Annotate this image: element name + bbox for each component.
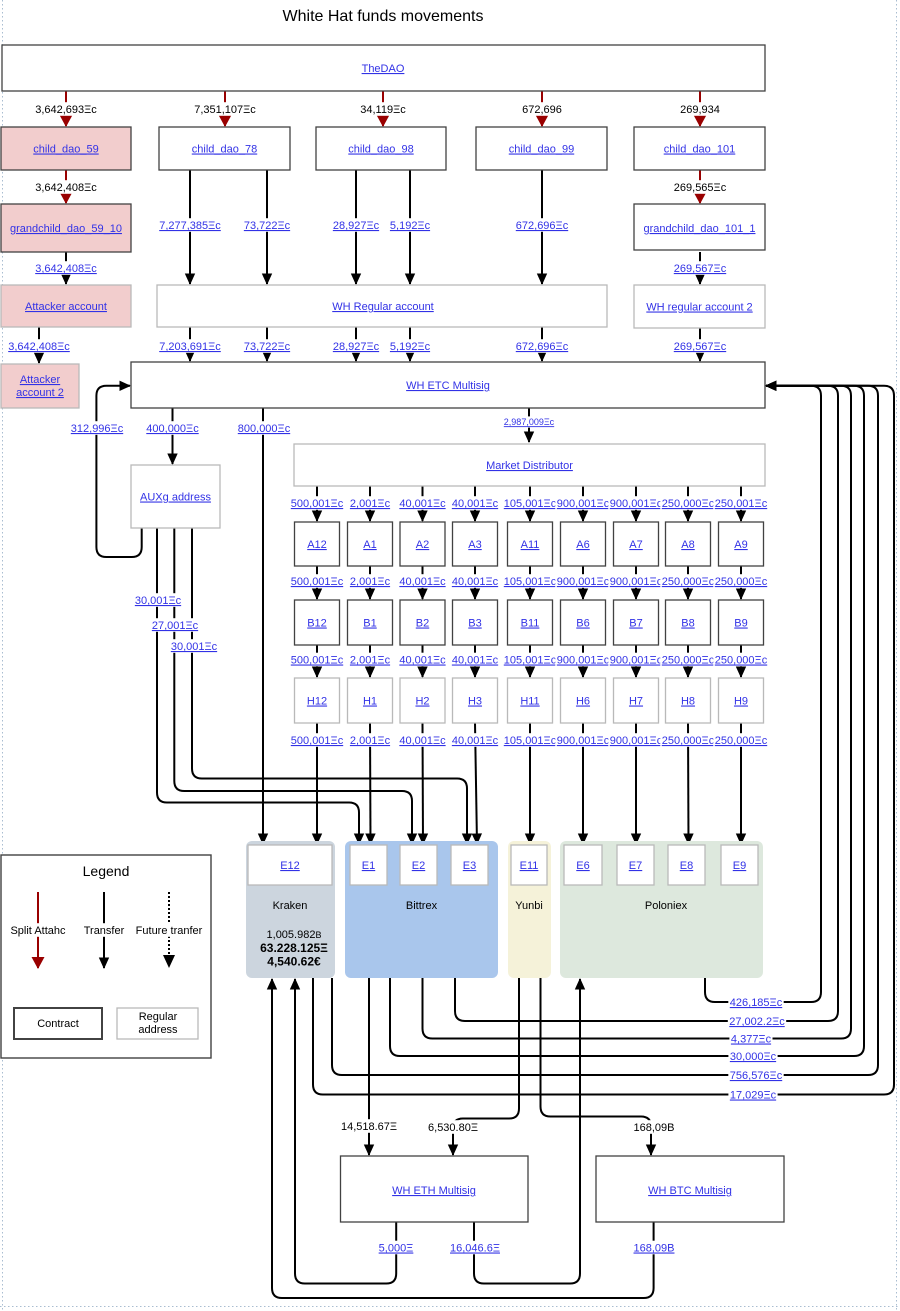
svg-text:B1: B1 bbox=[363, 618, 376, 630]
svg-text:AUXg address: AUXg address bbox=[140, 492, 211, 504]
svg-text:Market Distributor: Market Distributor bbox=[486, 460, 573, 472]
svg-text:17,029Ξc: 17,029Ξc bbox=[730, 1090, 777, 1102]
svg-text:B6: B6 bbox=[576, 618, 589, 630]
svg-text:Future tranfer: Future tranfer bbox=[136, 925, 203, 937]
svg-text:105,001Ξc: 105,001Ξc bbox=[504, 498, 557, 510]
svg-text:3,642,408Ξc: 3,642,408Ξc bbox=[8, 341, 70, 353]
svg-text:63.228.125Ξ: 63.228.125Ξ bbox=[260, 941, 328, 955]
svg-text:4,540.62€: 4,540.62€ bbox=[267, 955, 321, 969]
svg-text:40,001Ξc: 40,001Ξc bbox=[399, 576, 446, 588]
svg-text:28,927Ξc: 28,927Ξc bbox=[333, 220, 380, 232]
svg-text:900,001Ξc: 900,001Ξc bbox=[610, 498, 663, 510]
svg-text:500,001Ξc: 500,001Ξc bbox=[291, 576, 344, 588]
svg-text:H2: H2 bbox=[415, 696, 429, 708]
svg-text:E7: E7 bbox=[629, 860, 642, 872]
svg-text:269,934: 269,934 bbox=[680, 104, 720, 116]
svg-text:3,642,693Ξc: 3,642,693Ξc bbox=[35, 104, 97, 116]
svg-text:2,001Ξc: 2,001Ξc bbox=[350, 735, 391, 747]
svg-text:250,000Ξc: 250,000Ξc bbox=[715, 655, 768, 667]
svg-text:Regular: Regular bbox=[139, 1011, 178, 1023]
svg-text:B7: B7 bbox=[629, 618, 642, 630]
svg-text:168,09B: 168,09B bbox=[634, 1122, 675, 1134]
svg-text:105,001Ξc: 105,001Ξc bbox=[504, 655, 557, 667]
svg-text:5,192Ξc: 5,192Ξc bbox=[390, 341, 431, 353]
svg-text:H12: H12 bbox=[307, 696, 327, 708]
svg-text:105,001Ξc: 105,001Ξc bbox=[504, 735, 557, 747]
svg-text:5,000Ξ: 5,000Ξ bbox=[379, 1243, 414, 1255]
svg-text:800,000Ξc: 800,000Ξc bbox=[238, 423, 291, 435]
svg-text:2,001Ξc: 2,001Ξc bbox=[350, 655, 391, 667]
svg-text:WH regular account 2: WH regular account 2 bbox=[646, 302, 752, 314]
svg-text:H3: H3 bbox=[468, 696, 482, 708]
svg-text:40,001Ξc: 40,001Ξc bbox=[399, 735, 446, 747]
svg-text:E12: E12 bbox=[280, 860, 300, 872]
svg-text:E11: E11 bbox=[520, 860, 539, 872]
svg-text:900,001Ξc: 900,001Ξc bbox=[557, 655, 610, 667]
svg-text:WH BTC Multisig: WH BTC Multisig bbox=[648, 1185, 732, 1197]
svg-text:400,000Ξc: 400,000Ξc bbox=[146, 423, 199, 435]
svg-text:E1: E1 bbox=[362, 860, 375, 872]
svg-text:White Hat funds movements: White Hat funds movements bbox=[283, 8, 484, 25]
svg-text:168,09B: 168,09B bbox=[634, 1243, 675, 1255]
svg-text:A11: A11 bbox=[521, 539, 540, 551]
svg-text:250,000Ξc: 250,000Ξc bbox=[715, 576, 768, 588]
svg-text:1,005.982B: 1,005.982B bbox=[267, 929, 322, 941]
svg-text:312,996Ξc: 312,996Ξc bbox=[71, 423, 124, 435]
svg-text:2,001Ξc: 2,001Ξc bbox=[350, 576, 391, 588]
svg-text:H7: H7 bbox=[629, 696, 643, 708]
svg-text:672,696: 672,696 bbox=[522, 104, 562, 116]
svg-text:E9: E9 bbox=[733, 860, 746, 872]
svg-text:900,001Ξc: 900,001Ξc bbox=[557, 735, 610, 747]
svg-text:A6: A6 bbox=[576, 539, 589, 551]
svg-text:Yunbi: Yunbi bbox=[515, 900, 543, 912]
svg-text:TheDAO: TheDAO bbox=[362, 63, 405, 75]
svg-text:40,001Ξc: 40,001Ξc bbox=[399, 498, 446, 510]
svg-text:250,000Ξc: 250,000Ξc bbox=[662, 576, 715, 588]
svg-text:250,000Ξc: 250,000Ξc bbox=[662, 498, 715, 510]
svg-text:2,987,009Ξc: 2,987,009Ξc bbox=[504, 417, 555, 427]
svg-text:grandchild_dao_101_1: grandchild_dao_101_1 bbox=[644, 223, 756, 235]
svg-text:500,001Ξc: 500,001Ξc bbox=[291, 655, 344, 667]
svg-text:address: address bbox=[138, 1024, 178, 1036]
svg-text:40,001Ξc: 40,001Ξc bbox=[452, 735, 499, 747]
svg-text:E3: E3 bbox=[463, 860, 476, 872]
svg-text:child_dao_101: child_dao_101 bbox=[664, 144, 736, 156]
svg-text:Contract: Contract bbox=[37, 1018, 79, 1030]
svg-text:2,001Ξc: 2,001Ξc bbox=[350, 498, 391, 510]
svg-text:7,203,691Ξc: 7,203,691Ξc bbox=[159, 341, 221, 353]
svg-text:672,696Ξc: 672,696Ξc bbox=[516, 341, 569, 353]
svg-text:H8: H8 bbox=[681, 696, 695, 708]
svg-text:3,642,408Ξc: 3,642,408Ξc bbox=[35, 182, 97, 194]
svg-text:269,565Ξc: 269,565Ξc bbox=[674, 182, 727, 194]
svg-text:269,567Ξc: 269,567Ξc bbox=[674, 263, 727, 275]
svg-text:A2: A2 bbox=[416, 539, 429, 551]
svg-text:B2: B2 bbox=[416, 618, 429, 630]
svg-text:28,927Ξc: 28,927Ξc bbox=[333, 341, 380, 353]
svg-text:40,001Ξc: 40,001Ξc bbox=[399, 655, 446, 667]
svg-text:grandchild_dao_59_10: grandchild_dao_59_10 bbox=[10, 223, 122, 235]
svg-text:672,696Ξc: 672,696Ξc bbox=[516, 220, 569, 232]
svg-text:900,001Ξc: 900,001Ξc bbox=[610, 655, 663, 667]
svg-text:Attacker account: Attacker account bbox=[25, 301, 107, 313]
svg-text:5,192Ξc: 5,192Ξc bbox=[390, 220, 431, 232]
svg-text:40,001Ξc: 40,001Ξc bbox=[452, 576, 499, 588]
svg-text:child_dao_98: child_dao_98 bbox=[348, 144, 413, 156]
svg-text:B8: B8 bbox=[681, 618, 694, 630]
svg-text:WH ETH Multisig: WH ETH Multisig bbox=[392, 1185, 476, 1197]
svg-text:500,001Ξc: 500,001Ξc bbox=[291, 498, 344, 510]
svg-text:A12: A12 bbox=[307, 539, 327, 551]
svg-text:30,001Ξc: 30,001Ξc bbox=[135, 595, 182, 607]
svg-text:7,351,107Ξc: 7,351,107Ξc bbox=[194, 104, 256, 116]
svg-text:500,001Ξc: 500,001Ξc bbox=[291, 735, 344, 747]
svg-text:30,000Ξc: 30,000Ξc bbox=[730, 1051, 777, 1063]
svg-text:Bittrex: Bittrex bbox=[406, 900, 438, 912]
svg-text:H6: H6 bbox=[576, 696, 590, 708]
svg-text:900,001Ξc: 900,001Ξc bbox=[557, 498, 610, 510]
svg-text:E8: E8 bbox=[680, 860, 693, 872]
svg-text:426,185Ξc: 426,185Ξc bbox=[730, 997, 783, 1009]
svg-text:900,001Ξc: 900,001Ξc bbox=[610, 576, 663, 588]
svg-text:H1: H1 bbox=[363, 696, 377, 708]
svg-text:40,001Ξc: 40,001Ξc bbox=[452, 655, 499, 667]
svg-text:H9: H9 bbox=[734, 696, 748, 708]
svg-text:child_dao_59: child_dao_59 bbox=[33, 144, 98, 156]
svg-text:E2: E2 bbox=[412, 860, 425, 872]
svg-text:Legend: Legend bbox=[83, 863, 130, 879]
svg-text:child_dao_99: child_dao_99 bbox=[509, 144, 574, 156]
svg-text:269,567Ξc: 269,567Ξc bbox=[674, 341, 727, 353]
svg-text:105,001Ξc: 105,001Ξc bbox=[504, 576, 557, 588]
svg-text:B9: B9 bbox=[734, 618, 747, 630]
svg-text:WH ETC Multisig: WH ETC Multisig bbox=[406, 380, 490, 392]
svg-text:E6: E6 bbox=[576, 860, 589, 872]
svg-text:16,046.6Ξ: 16,046.6Ξ bbox=[450, 1243, 500, 1255]
svg-text:child_dao_78: child_dao_78 bbox=[192, 144, 257, 156]
svg-text:A3: A3 bbox=[468, 539, 481, 551]
svg-text:A7: A7 bbox=[629, 539, 642, 551]
svg-text:Kraken: Kraken bbox=[273, 900, 308, 912]
svg-text:900,001Ξc: 900,001Ξc bbox=[557, 576, 610, 588]
svg-text:4,377Ξc: 4,377Ξc bbox=[731, 1034, 772, 1046]
svg-text:B11: B11 bbox=[521, 618, 540, 630]
svg-text:900,001Ξc: 900,001Ξc bbox=[610, 735, 663, 747]
svg-text:30,001Ξc: 30,001Ξc bbox=[171, 641, 218, 653]
svg-text:250,000Ξc: 250,000Ξc bbox=[715, 735, 768, 747]
svg-text:73,722Ξc: 73,722Ξc bbox=[244, 220, 291, 232]
svg-text:B3: B3 bbox=[468, 618, 481, 630]
svg-text:73,722Ξc: 73,722Ξc bbox=[244, 341, 291, 353]
svg-text:250,000Ξc: 250,000Ξc bbox=[662, 735, 715, 747]
svg-text:A9: A9 bbox=[734, 539, 747, 551]
svg-text:27,002.2Ξc: 27,002.2Ξc bbox=[729, 1016, 785, 1028]
svg-text:27,001Ξc: 27,001Ξc bbox=[152, 620, 199, 632]
svg-text:account 2: account 2 bbox=[16, 387, 64, 399]
svg-text:34,119Ξc: 34,119Ξc bbox=[360, 104, 406, 116]
svg-text:250,000Ξc: 250,000Ξc bbox=[662, 655, 715, 667]
svg-text:B12: B12 bbox=[307, 618, 327, 630]
svg-text:A1: A1 bbox=[363, 539, 376, 551]
svg-text:7,277,385Ξc: 7,277,385Ξc bbox=[159, 220, 221, 232]
svg-text:Poloniex: Poloniex bbox=[645, 900, 688, 912]
svg-text:Split Attahc: Split Attahc bbox=[10, 925, 66, 937]
svg-text:WH Regular account: WH Regular account bbox=[332, 301, 434, 313]
svg-text:Attacker: Attacker bbox=[20, 374, 61, 386]
svg-text:40,001Ξc: 40,001Ξc bbox=[452, 498, 499, 510]
svg-text:756,576Ξc: 756,576Ξc bbox=[730, 1070, 783, 1082]
svg-text:3,642,408Ξc: 3,642,408Ξc bbox=[35, 263, 97, 275]
svg-text:A8: A8 bbox=[681, 539, 694, 551]
svg-text:250,001Ξc: 250,001Ξc bbox=[715, 498, 768, 510]
svg-text:H11: H11 bbox=[520, 696, 539, 708]
svg-text:6,530.80Ξ: 6,530.80Ξ bbox=[428, 1122, 478, 1134]
svg-text:14,518.67Ξ: 14,518.67Ξ bbox=[341, 1121, 397, 1133]
svg-text:Transfer: Transfer bbox=[84, 925, 125, 937]
